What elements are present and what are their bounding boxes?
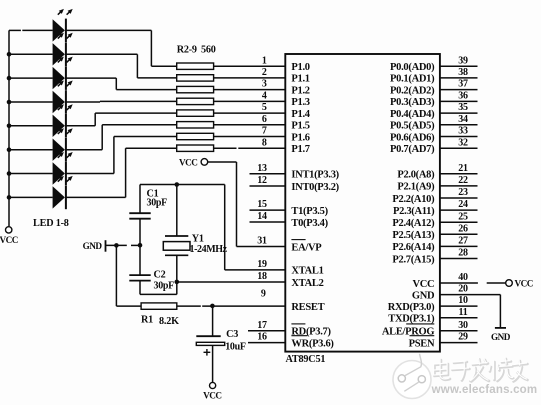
wire LED6 cathode to R7 (66, 125, 178, 150)
svg-text:560: 560 (201, 45, 216, 56)
svg-text:40: 40 (458, 272, 468, 283)
pin 34 P0.5 (440, 124, 478, 126)
pin 20 GND (440, 295, 501, 328)
svg-text:P0.0(AD0): P0.0(AD0) (390, 62, 435, 73)
svg-text:26: 26 (458, 223, 468, 234)
wire LED1 cathode to R2 (66, 30, 178, 66)
junction gnd-R1 (114, 243, 119, 248)
wire LED2 anode (9, 53, 53, 55)
wire LED4 anode (9, 101, 53, 103)
pin 17 RD (248, 330, 285, 332)
junction bus dot y150 (7, 147, 12, 152)
svg-text:TXD(P3.1): TXD(P3.1) (388, 314, 435, 325)
wire LED5 anode (9, 125, 53, 127)
capacitor C1 (129, 213, 150, 219)
pin 22 P2.1 (440, 185, 478, 187)
wire C3 to VCC (212, 345, 214, 382)
wire R9 to pin8 (214, 147, 237, 149)
pin 38 P0.1 (440, 77, 478, 79)
svg-text:35: 35 (458, 102, 468, 113)
wire C2 bottom return (140, 281, 177, 295)
svg-text:10uF: 10uF (225, 342, 246, 353)
svg-text:GND: GND (83, 241, 103, 251)
junction bus dot y174 (7, 171, 12, 176)
pin 39 P0.0 (440, 65, 478, 67)
svg-text:38: 38 (458, 67, 468, 78)
svg-text:1-24MHz: 1-24MHz (190, 244, 228, 255)
svg-text:P1.3: P1.3 (291, 97, 309, 108)
pin 12 INT0(P3.2) (250, 185, 286, 187)
svg-text:28: 28 (458, 248, 468, 259)
svg-text:P2.5(A13): P2.5(A13) (392, 230, 435, 241)
wire R7 to pin6 (214, 124, 286, 126)
svg-text:P2.4(A12): P2.4(A12) (392, 218, 435, 229)
wire gnd to caps (106, 244, 141, 246)
LED D4 (53, 81, 73, 114)
svg-text:20: 20 (458, 284, 468, 295)
svg-text:P1.5: P1.5 (291, 121, 309, 132)
resistor R4 (177, 86, 214, 92)
capacitor C2 (129, 275, 150, 281)
svg-text:EA/VP: EA/VP (291, 242, 322, 253)
wire R3 to pin2 (214, 77, 286, 79)
junction reset-C3 (210, 304, 215, 309)
svg-text:30: 30 (458, 320, 468, 331)
LED D8 (53, 176, 73, 209)
svg-text:C2: C2 (154, 270, 166, 281)
svg-text:R1: R1 (141, 314, 153, 325)
ground left (105, 240, 107, 252)
svg-text:22: 22 (458, 175, 468, 186)
VCC terminal left (6, 227, 12, 233)
pin 36 P0.3 (440, 100, 478, 102)
wire LED3 anode (9, 77, 53, 79)
svg-text:32: 32 (458, 137, 468, 148)
pin 23 P2.2 (440, 197, 478, 199)
wire LED6 anode (9, 149, 53, 151)
svg-text:P0.4(AD4): P0.4(AD4) (390, 109, 435, 120)
svg-text:XTAL1: XTAL1 (291, 266, 323, 277)
resistor R1 (141, 303, 177, 309)
wire LED2 cathode to R3 (66, 54, 178, 78)
svg-text:2: 2 (262, 67, 267, 78)
svg-text:1: 1 (262, 55, 267, 66)
pin 16 WR (248, 342, 285, 344)
svg-text:P0.2(AD2): P0.2(AD2) (390, 85, 435, 96)
LED D6 (53, 128, 73, 161)
svg-text:23: 23 (458, 187, 468, 198)
wire LED4 cathode to R5 (66, 100, 178, 103)
wire LED8 anode (9, 196, 53, 198)
svg-text:VCC: VCC (179, 158, 197, 168)
svg-text:P1.7: P1.7 (291, 144, 309, 155)
wire osc top node (140, 185, 225, 270)
crystal Y1 (163, 236, 190, 255)
junction osc top (175, 182, 180, 187)
resistor R5 (177, 98, 214, 104)
svg-text:P0.6(AD6): P0.6(AD6) (390, 132, 435, 143)
svg-text:AT89C51: AT89C51 (286, 354, 326, 365)
wire C1-C2 (139, 219, 141, 275)
pin 26 P2.5 (440, 233, 478, 235)
svg-text:15: 15 (257, 199, 267, 210)
svg-text:P0.1(AD1): P0.1(AD1) (390, 74, 435, 85)
svg-text:P2.0(A8): P2.0(A8) (397, 170, 435, 181)
svg-text:PSEN: PSEN (409, 338, 435, 349)
resistor R9 (177, 145, 214, 151)
wire xtal bottom stub (176, 255, 178, 294)
svg-text:39: 39 (458, 55, 468, 66)
svg-text:P0.7(AD7): P0.7(AD7) (390, 144, 435, 155)
junction gnd-caps (138, 243, 143, 248)
svg-text:4: 4 (262, 91, 267, 102)
svg-text:P2.7(A15): P2.7(A15) (392, 254, 435, 265)
resistor R7 (177, 122, 214, 128)
svg-text:16: 16 (257, 332, 267, 343)
svg-text:7: 7 (262, 126, 267, 137)
pin 15 T1(P3.5) (250, 209, 286, 211)
svg-text:30pF: 30pF (154, 281, 175, 292)
resistor R3 (177, 75, 214, 81)
svg-text:18: 18 (257, 271, 267, 282)
op-amp U1 AT89C51 body (285, 54, 440, 352)
svg-text:P1.6: P1.6 (291, 132, 309, 143)
junction bus dot y54 (7, 52, 12, 57)
overline RD (291, 323, 305, 325)
wire xtal top stub (176, 185, 178, 237)
overline PSEN (410, 335, 435, 337)
wire LED8 cathode to R9 (66, 148, 178, 197)
svg-text:P2.2(A10): P2.2(A10) (392, 194, 435, 205)
pin 28 P2.7 (440, 258, 478, 260)
capacitor C3 (196, 336, 224, 345)
overline EA (291, 239, 305, 241)
LED D7 (53, 152, 73, 185)
svg-text:P1.2: P1.2 (291, 85, 309, 96)
wire R4 to pin3 (214, 89, 286, 91)
junction bus dot y78 (7, 76, 12, 81)
overline PROG (406, 323, 434, 325)
svg-text:13: 13 (257, 163, 267, 174)
svg-text:31: 31 (257, 236, 267, 247)
pin 11 TXD(P3.1) (440, 317, 478, 319)
VCC terminal bottom (210, 382, 216, 388)
svg-text:GND: GND (412, 290, 435, 301)
svg-text:36: 36 (458, 91, 468, 102)
svg-text:VCC: VCC (203, 390, 221, 400)
pin 27 P2.6 (440, 245, 478, 247)
pin 25 P2.4 (440, 221, 478, 223)
wire LED3 cathode to R4 (66, 78, 178, 90)
junction bus dot y102 (7, 100, 12, 105)
svg-text:34: 34 (458, 114, 468, 125)
wire R2 to pin1 (214, 65, 286, 67)
svg-text:P2.1(A9): P2.1(A9) (397, 182, 435, 193)
junction xtal2 (175, 280, 180, 285)
svg-text:P1.0: P1.0 (291, 62, 309, 73)
wire C3 top lead (212, 306, 214, 336)
wire LED7 cathode to R8 (66, 137, 178, 174)
svg-text:30pF: 30pF (147, 198, 168, 209)
svg-text:T0(P3.4): T0(P3.4) (291, 218, 328, 229)
wire LED7 anode (9, 173, 53, 175)
pin 13 INT1(P3.3) (250, 173, 286, 175)
svg-text:24: 24 (458, 199, 468, 210)
svg-text:33: 33 (458, 126, 468, 137)
wire gnd down to R1 (116, 245, 141, 306)
svg-text:P0.5(AD5): P0.5(AD5) (390, 121, 435, 132)
wire LED1 anode (9, 29, 53, 31)
svg-text:R2-9: R2-9 (177, 45, 197, 56)
resistor R6 (177, 110, 214, 116)
watermark text dianzifashaoyou (435, 359, 528, 382)
svg-text:14: 14 (257, 211, 267, 222)
LED D5 (53, 104, 73, 137)
svg-text:RESET: RESET (291, 302, 324, 313)
svg-text:12: 12 (257, 175, 267, 186)
pin 9 RESET wire (177, 305, 285, 307)
ground right (495, 327, 506, 329)
pin 21 P2.0 (440, 173, 478, 175)
svg-text:T1(P3.5): T1(P3.5) (291, 206, 328, 217)
svg-text:www.elecfans.com: www.elecfans.com (431, 384, 538, 396)
svg-text:P0.3(AD3): P0.3(AD3) (390, 97, 435, 108)
svg-text:VCC: VCC (412, 279, 434, 290)
svg-text:5: 5 (262, 102, 267, 113)
svg-text:8.2K: 8.2K (159, 316, 179, 327)
watermark logo circle (393, 354, 431, 399)
svg-text:INT1(P3.3): INT1(P3.3) (291, 170, 339, 181)
svg-text:8: 8 (262, 137, 267, 148)
svg-text:25: 25 (458, 211, 468, 222)
resistor R2 (177, 63, 214, 69)
svg-text:29: 29 (458, 332, 468, 343)
pin 40 VCC (440, 282, 506, 284)
svg-text:21: 21 (458, 163, 468, 174)
svg-text:C3: C3 (226, 329, 238, 340)
wire left VCC bus (8, 30, 10, 226)
svg-text:LED 1-8: LED 1-8 (33, 218, 69, 229)
LED D1 (53, 9, 73, 42)
svg-text:XTAL2: XTAL2 (291, 278, 323, 289)
wire VCC to EA pin31 (208, 162, 286, 247)
LED D3 (53, 57, 73, 90)
wire R5 to pin4 (214, 100, 286, 102)
pin 32 P0.7 (440, 147, 478, 149)
VCC terminal right (506, 280, 513, 287)
wire R6 to pin5 (214, 112, 286, 114)
pin 18 XTAL2 (177, 281, 285, 283)
svg-text:19: 19 (257, 259, 267, 270)
svg-text:P1.1: P1.1 (291, 74, 309, 85)
pin 30 ALE/PROG (440, 330, 478, 332)
junction bus dot y197 (7, 195, 12, 200)
svg-text:6: 6 (262, 114, 267, 125)
svg-text:WR(P3.6): WR(P3.6) (291, 338, 334, 349)
pin 33 P0.6 (440, 136, 478, 138)
wire LED5 cathode to R6 (66, 113, 178, 126)
svg-text:37: 37 (458, 79, 468, 90)
pin 24 P2.3 (440, 209, 478, 211)
svg-text:P2.6(A14): P2.6(A14) (392, 242, 435, 253)
svg-text:VCC: VCC (515, 279, 533, 289)
wire R8 to pin7 (214, 136, 286, 138)
svg-text:P2.3(A11): P2.3(A11) (393, 206, 435, 217)
svg-text:P1.4: P1.4 (291, 109, 310, 120)
resistor R8 (177, 133, 214, 139)
svg-text:GND: GND (491, 332, 511, 342)
pin 37 P0.2 (440, 89, 478, 91)
plus sign C3 (204, 349, 211, 356)
pin 19 XTAL1 (225, 269, 286, 271)
svg-text:VCC: VCC (0, 235, 18, 245)
svg-text:11: 11 (458, 307, 467, 318)
overline WR (291, 335, 307, 337)
junction bus dot y126 (7, 124, 12, 129)
svg-text:27: 27 (458, 236, 468, 247)
pin 10 RXD(P3.0) (440, 305, 478, 307)
LED D2 (53, 33, 73, 66)
wire C1 top lead (139, 185, 141, 214)
svg-text:17: 17 (257, 320, 267, 331)
pin 35 P0.4 (440, 112, 478, 114)
svg-text:3: 3 (262, 79, 267, 90)
svg-text:INT0(P3.2): INT0(P3.2) (291, 182, 339, 193)
svg-text:10: 10 (458, 295, 468, 306)
pin 14 T0(P3.4) (250, 221, 286, 223)
pin 29 PSEN (440, 342, 478, 344)
svg-text:9: 9 (261, 288, 266, 299)
svg-text:RXD(P3.0): RXD(P3.0) (388, 302, 435, 313)
